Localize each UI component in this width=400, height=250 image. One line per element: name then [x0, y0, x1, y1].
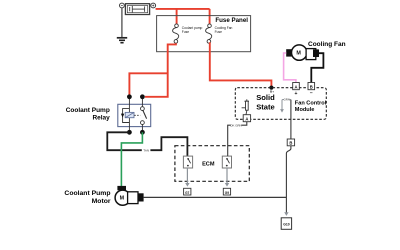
svg-text:G10: G10	[283, 223, 290, 227]
svg-text:Fuse: Fuse	[215, 30, 222, 34]
wire red F2 to solid state B+	[209, 43, 272, 86]
relay coil arrow	[121, 114, 124, 118]
wire red drop to cooling fan fuse	[209, 9, 211, 24]
fuse panel box	[157, 16, 251, 52]
wire solid state A to ECM driver 2	[228, 122, 247, 156]
svg-text:State: State	[256, 102, 275, 111]
ground	[117, 38, 127, 43]
svg-text:Fan Control: Fan Control	[295, 100, 327, 106]
connector G9	[223, 188, 230, 195]
wire red battery+ to fuse panel	[156, 8, 210, 10]
connector G10	[281, 218, 291, 230]
svg-text:Module: Module	[295, 107, 315, 113]
relay switch	[134, 107, 146, 125]
connector B fan input	[308, 83, 315, 90]
wire ground bus motor to G10	[144, 196, 287, 198]
relay K1 box	[118, 104, 151, 126]
svg-text:G7: G7	[185, 191, 189, 195]
svg-text:+: +	[295, 91, 298, 97]
svg-text:G9: G9	[225, 191, 229, 195]
ECM driver 2	[222, 156, 231, 168]
svg-text:ECM: ECM	[202, 161, 215, 167]
cooling fan motor M2	[286, 45, 319, 60]
svg-text:B: B	[289, 141, 292, 146]
relay coil	[125, 112, 134, 117]
wire label DK GRN	[231, 123, 242, 127]
svg-text:DK GRN: DK GRN	[230, 123, 241, 127]
svg-text:Motor: Motor	[92, 198, 111, 205]
svg-text:M: M	[120, 196, 125, 202]
svg-text:GRN: GRN	[284, 98, 290, 102]
svg-text:TAN: TAN	[143, 149, 149, 153]
svg-text:A: A	[294, 84, 297, 89]
fuse F1 coolant pump fuse	[173, 24, 179, 43]
wire black relay to ECM driver 1	[107, 132, 187, 156]
wire red drop to coolant pump fuse	[176, 9, 178, 24]
fan control module internal arrow	[280, 98, 291, 113]
battery B1	[125, 4, 149, 15]
wire fan control module to connector B2	[290, 100, 292, 139]
relay terminal 30	[127, 94, 132, 99]
svg-text:Solid: Solid	[256, 93, 275, 102]
relay pin stubs	[128, 97, 130, 113]
svg-text:−: −	[310, 91, 313, 97]
connector A fan input	[293, 83, 300, 90]
battery negative terminal	[120, 3, 125, 8]
connector A solid state output	[243, 115, 250, 122]
wire black fan to connector B	[311, 53, 323, 82]
svg-text:Coolant Pump: Coolant Pump	[64, 190, 110, 197]
fuse F2 cooling fan fuse	[206, 24, 212, 43]
wire green relay to coolant pump motor	[121, 132, 142, 186]
relay terminal 85	[140, 94, 145, 99]
connector G7	[184, 188, 191, 195]
svg-text:Fuse: Fuse	[182, 30, 189, 34]
ECM driver 1 output arrow	[185, 168, 189, 187]
wire label TAN	[142, 148, 151, 152]
svg-text:Relay: Relay	[92, 115, 110, 122]
svg-text:Cooling Fan: Cooling Fan	[308, 41, 346, 48]
svg-text:Coolant Pump: Coolant Pump	[66, 107, 110, 114]
relay coil loop	[123, 109, 130, 123]
wire connector B to ground junction	[286, 146, 291, 213]
ECM box	[175, 146, 249, 182]
wire pink fan to connector A	[284, 53, 296, 83]
solid state switch element	[242, 99, 249, 114]
arrow to G10	[284, 212, 288, 216]
battery positive terminal	[151, 3, 156, 8]
ECM driver 1	[183, 156, 192, 168]
svg-text:B: B	[310, 84, 313, 89]
solid state / fan control module box	[235, 88, 326, 120]
svg-text:Fuse Panel: Fuse Panel	[215, 17, 248, 24]
ECM driver 2 output arrow	[225, 168, 229, 187]
wire red branch to relay coil terminal	[129, 73, 167, 94]
wire red F1 to relay terminals	[145, 43, 176, 97]
svg-text:A: A	[245, 116, 248, 121]
svg-text:M: M	[296, 51, 301, 57]
relay terminal 87	[127, 130, 132, 135]
relay terminal 86	[140, 130, 145, 135]
coolant pump motor M1	[115, 186, 144, 205]
node B+	[269, 86, 273, 90]
connector B module output	[287, 139, 294, 146]
wire battery negative to ground	[121, 8, 123, 38]
